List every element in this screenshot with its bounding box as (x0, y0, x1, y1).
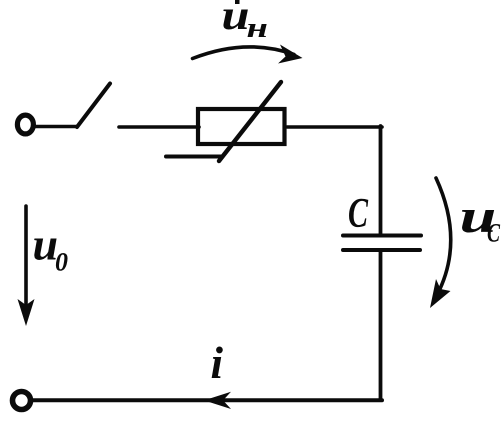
voltage arc u_n (curved arrow over resistor) (193, 47, 295, 59)
voltage arc u_C (head) (430, 279, 451, 308)
terminal T1 (top-left input) (17, 115, 33, 134)
nonlinear resistor R (characteristic foot dash) (166, 155, 222, 159)
nonlinear resistor R (rectangle body) (198, 109, 285, 144)
current arrow i (head, pointing left) (204, 392, 231, 409)
capacitor C top plate (343, 234, 421, 238)
wire: capacitor down to bottom-right corner (379, 252, 383, 399)
label u0 (source voltage) (33, 219, 69, 277)
wire: switch to nonlinear resistor (119, 125, 199, 129)
voltage arc u_C (curved arrow right of capacitor) (436, 178, 451, 295)
switch S (open blade) (77, 84, 110, 128)
wire: resistor to top-right corner (287, 125, 382, 129)
wire: terminal T1 to switch pivot (35, 125, 77, 129)
nonlinear resistor R (diagonal stroke) (219, 82, 281, 161)
voltage arrow u0 (head) (18, 299, 35, 326)
svg-text:н: н (247, 12, 268, 43)
svg-text:i: i (211, 338, 224, 388)
svg-text:u: u (222, 0, 250, 39)
wire: bottom return conductor (32, 398, 382, 402)
voltage arrow u0 (shaft) (24, 206, 28, 310)
svg-text:C: C (348, 191, 369, 237)
label u_C (capacitor voltage) (460, 189, 501, 248)
svg-text:C: C (487, 219, 500, 248)
label u_n (voltage across resistor) (222, 0, 268, 44)
stray scan mark (235, 0, 240, 4)
wire: right vertical down to capacitor (379, 126, 383, 234)
voltage arc u_n (head) (278, 45, 303, 64)
terminal T2 (bottom-left) (13, 392, 31, 410)
svg-text:0: 0 (55, 248, 68, 277)
capacitor C bottom plate (343, 248, 420, 252)
